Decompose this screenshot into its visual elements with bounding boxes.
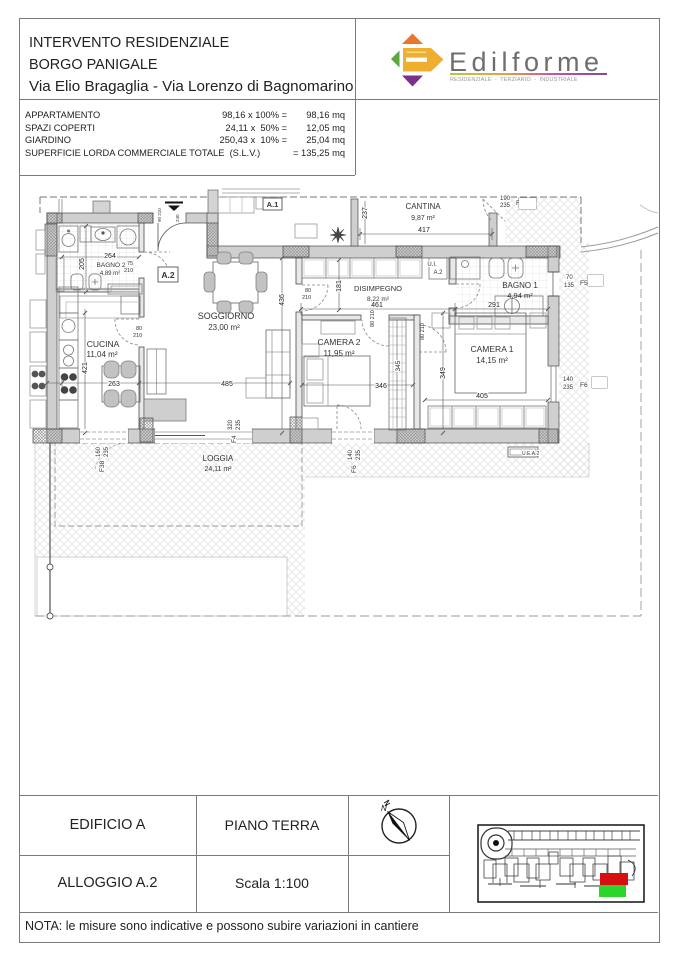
- F6 camera2 door sill: [332, 432, 374, 439]
- loggia dashed boundary: [55, 443, 302, 526]
- dim 291 bagno1: [455, 308, 548, 310]
- divider wall A1/corridor: [207, 246, 560, 258]
- cucina tall unit: [121, 296, 140, 314]
- window labels: [96, 196, 607, 473]
- cucina table: [102, 366, 140, 402]
- svg-text:BAGNO 2: BAGNO 2: [97, 262, 126, 269]
- A2 box: [158, 267, 178, 282]
- pier hatched: sw corner: [33, 429, 62, 443]
- dim 205 vertical: [85, 226, 87, 288]
- F38 kitchen door sill: [80, 432, 128, 439]
- camera2 shelf: [302, 344, 319, 357]
- dim 181 vertical: [338, 260, 340, 309]
- svg-text:A.2: A.2: [161, 270, 175, 280]
- garden hatch loggia field: [35, 443, 305, 557]
- bagno1 floor tiles: [456, 258, 548, 316]
- cantina right wall: [489, 213, 497, 246]
- bagno2 sink top: [80, 226, 91, 242]
- bagno1 west wall: [449, 258, 456, 284]
- svg-text:205: 205: [79, 258, 86, 270]
- disimpegno south wall left: [302, 315, 361, 320]
- measures table: [25, 109, 345, 159]
- south wall segment between doors: [128, 429, 155, 443]
- svg-text:140: 140: [348, 449, 354, 460]
- minimap top strip: [508, 831, 640, 840]
- wall top right of entrance: [186, 213, 218, 223]
- dining table: [213, 262, 258, 303]
- svg-text:U.E.A.2: U.E.A.2: [522, 451, 539, 457]
- svg-text:SOGGIORNO: SOGGIORNO: [198, 311, 255, 321]
- svg-text:CANTINA: CANTINA: [405, 202, 441, 211]
- title text: [29, 33, 353, 99]
- cucina/soggiorno partition mid: [139, 278, 144, 317]
- svg-text:F38: F38: [99, 460, 106, 472]
- soggiorno/camera2 wall upper: [296, 258, 302, 284]
- svg-text:235: 235: [563, 385, 574, 391]
- A1 plant: [330, 227, 346, 243]
- disimpegno south wall right stub: [389, 315, 419, 320]
- cucina top cabinets: [60, 296, 140, 318]
- garden hatch right column: [559, 243, 589, 477]
- svg-text:80 210: 80 210: [370, 310, 376, 327]
- camera2 desk top: [321, 321, 355, 334]
- svg-text:90 210: 90 210: [157, 208, 162, 222]
- bagno1 south wall: [449, 316, 548, 324]
- right outer wall middle: [548, 296, 559, 366]
- south wall segment soggiorno/camera2: [252, 429, 332, 443]
- svg-text:BAGNO 1: BAGNO 1: [502, 281, 538, 290]
- minimap highlight green: [599, 885, 626, 897]
- sofa: [266, 330, 290, 398]
- svg-text:24,11 m²: 24,11 m²: [204, 466, 232, 473]
- svg-text:11,95 m²: 11,95 m²: [324, 349, 355, 358]
- svg-text:140: 140: [563, 377, 574, 383]
- pier hatched: bagno2 top: [138, 213, 153, 223]
- svg-text:160: 160: [96, 446, 102, 457]
- right outer wall bagno1: [548, 246, 559, 272]
- svg-text:349: 349: [440, 367, 447, 379]
- garden hatch bottom right belt: [305, 443, 589, 477]
- svg-text:345: 345: [395, 360, 402, 371]
- svg-text:235: 235: [500, 203, 511, 209]
- svg-text:210: 210: [124, 268, 133, 274]
- entrance jamb column: [207, 213, 218, 258]
- camera1 door arc: [419, 325, 446, 352]
- svg-text:A.2: A.2: [433, 270, 443, 276]
- dim 346 camera2: [302, 384, 413, 386]
- white sill backgrounds: [80, 429, 128, 443]
- pergola post line: [49, 441, 51, 616]
- svg-text:210: 210: [302, 295, 311, 301]
- camera2/camera1 wall: [414, 315, 420, 429]
- soggiorno tall cabinet: [147, 349, 166, 394]
- entrance canopy marker: [165, 202, 183, 204]
- south wall segment camera1: [374, 429, 548, 443]
- svg-text:346: 346: [375, 383, 387, 390]
- svg-text:70: 70: [566, 275, 573, 281]
- property dashed boundary bottom: [35, 615, 641, 617]
- svg-text:190: 190: [500, 196, 511, 202]
- svg-text:264: 264: [104, 253, 116, 260]
- UI A2 closet: [429, 258, 447, 279]
- svg-text:210: 210: [133, 333, 142, 339]
- svg-text:421: 421: [82, 362, 89, 374]
- camera2 french door dashed arc: [337, 405, 361, 429]
- camera2 door arc: [362, 320, 389, 346]
- svg-text:80 210: 80 210: [420, 323, 426, 340]
- title block grid lines: [19, 795, 658, 796]
- pier hatched: divider 1: [283, 246, 309, 257]
- svg-text:461: 461: [371, 302, 383, 309]
- svg-text:F4: F4: [231, 435, 238, 443]
- cucina/soggiorno partition upper: [139, 223, 144, 252]
- soggiorno-disimpegno door arc: [302, 285, 328, 311]
- bagno2 washer: [59, 226, 78, 252]
- cucina door arc: [115, 319, 139, 345]
- bagno1 door arc: [456, 284, 480, 308]
- svg-text:80: 80: [305, 288, 311, 294]
- neighbor A3 fixtures: [36, 230, 45, 250]
- pier hatched: bagno1 top: [526, 246, 557, 257]
- svg-text:235: 235: [104, 446, 110, 457]
- minimap mid strip: [505, 849, 636, 856]
- neighbor wall stubs above top wall: [59, 199, 62, 213]
- camera1 bed: [455, 313, 526, 393]
- camera1 nightstand left: [432, 313, 450, 328]
- kitchen SE platform: [144, 399, 186, 421]
- bagno2 south partition: [57, 289, 139, 292]
- property dashed boundary far right: [640, 250, 642, 616]
- compass needle: [388, 812, 410, 841]
- svg-text:11,04 m²: 11,04 m²: [87, 350, 118, 359]
- cucina chairs: [104, 361, 119, 378]
- bagno2 bidet: [89, 274, 101, 290]
- svg-text:F6: F6: [351, 465, 358, 473]
- cucina/soggiorno partition lower: [139, 347, 144, 429]
- logo diamond: green left triangle: [391, 51, 400, 68]
- title block texts: [19, 795, 196, 855]
- F4 sliding door sill: [155, 432, 252, 439]
- svg-text:235: 235: [356, 449, 362, 460]
- dim 349 vertical: [442, 313, 444, 429]
- camera2 wardrobe column: [389, 318, 406, 430]
- svg-text:181: 181: [336, 280, 343, 292]
- right outer wall lower: [548, 402, 559, 443]
- svg-text:320: 320: [228, 419, 234, 430]
- cucina counter unit: [59, 313, 78, 340]
- svg-text:263: 263: [108, 381, 120, 388]
- svg-text:14,15 m²: 14,15 m²: [476, 356, 508, 365]
- minimap road loop: [481, 828, 512, 859]
- dim 417 cantina: [360, 228, 492, 240]
- pier hatched: camera1 east: [539, 429, 558, 443]
- logo arrow E: [403, 48, 444, 72]
- svg-text:LOGGIA: LOGGIA: [203, 454, 234, 463]
- camera2 bench: [302, 418, 318, 429]
- svg-text:135: 135: [564, 283, 575, 289]
- A1 sofa 1: [218, 197, 254, 213]
- svg-text:DISIMPEGNO: DISIMPEGNO: [354, 284, 402, 293]
- cucina sideboard: [108, 284, 142, 294]
- dim 461 disimpegno: [301, 303, 455, 315]
- property dashed boundary top: [40, 197, 581, 213]
- minimap frame: [478, 825, 644, 902]
- pier hatched: entrance jamb: [207, 223, 218, 256]
- svg-text:23,00 m²: 23,00 m²: [208, 323, 240, 332]
- header separator below title/logo row: [19, 99, 658, 100]
- svg-text:CUCINA: CUCINA: [87, 339, 120, 349]
- header separator below measures box: [19, 175, 355, 176]
- property dashed boundary right upper: [580, 197, 582, 243]
- disimpegno wardrobe row: [302, 258, 422, 278]
- party wall left: [47, 213, 57, 443]
- camera1 wardrobe: [428, 406, 546, 428]
- bagno2 sink2: [117, 226, 139, 248]
- garden hatch top-right block: [505, 197, 581, 243]
- window F5 lines: [548, 272, 559, 296]
- cucina stove: [59, 368, 78, 400]
- cucina counter fridge: [59, 287, 78, 313]
- soggiorno/camera2 wall lower: [296, 312, 302, 429]
- bagno2 side cabinet: [56, 258, 64, 291]
- dim 345 vertical wardrobe: [396, 320, 398, 428]
- bagno1 wc: [489, 258, 504, 278]
- A1 couch 2: [295, 224, 317, 238]
- svg-text:CAMERA 1: CAMERA 1: [471, 344, 514, 354]
- dim 264 bagno2: [62, 256, 139, 258]
- small door labels: [124, 208, 426, 340]
- camera2 bed: [304, 356, 370, 406]
- svg-text:405: 405: [476, 393, 488, 400]
- road curb curves top right: [581, 227, 658, 247]
- wall top bagno2: [47, 213, 153, 223]
- kitchen door arc to loggia: [95, 443, 128, 469]
- bagno2 wc: [71, 274, 83, 290]
- south wall segment kitchen left: [47, 429, 80, 443]
- boiler closet: [450, 257, 480, 279]
- svg-text:U.I.: U.I.: [427, 262, 437, 268]
- cucina sink unit: [59, 340, 78, 368]
- dim 436 vertical: [281, 258, 283, 429]
- UEA2 marker: [508, 447, 538, 457]
- svg-text:237: 237: [362, 207, 369, 219]
- dim 421 vertical cucina: [84, 309, 86, 429]
- svg-text:436: 436: [279, 294, 286, 306]
- bagno2 floor tiles: [57, 223, 139, 291]
- svg-text:CAMERA 2: CAMERA 2: [318, 337, 361, 347]
- svg-text:F6: F6: [580, 382, 588, 389]
- pier hatched: party wall: [45, 224, 57, 256]
- dining chairs: [217, 252, 231, 264]
- svg-text:4,94 m²: 4,94 m²: [507, 291, 533, 300]
- logo diamond: orange top triangle: [402, 34, 423, 45]
- bagno1 shower: [495, 296, 543, 316]
- svg-text:A.1: A.1: [267, 200, 279, 209]
- pier hatched: camera2 west: [290, 417, 302, 443]
- door F6 camera1 east glazing: [551, 366, 556, 402]
- cucina counter base: [59, 400, 78, 428]
- svg-text:485: 485: [221, 381, 233, 388]
- dim 237 vertical: [364, 201, 366, 244]
- minimap right curve: [628, 860, 635, 876]
- dim 405 camera1: [425, 399, 548, 401]
- logo diamond: purple bottom triangle: [402, 76, 423, 87]
- dim 485+263 line: [47, 377, 290, 389]
- minimap unit blocks: [484, 852, 634, 888]
- svg-text:240: 240: [175, 214, 180, 222]
- svg-text:80: 80: [136, 326, 142, 332]
- minimap highlight red: [600, 873, 628, 885]
- lawn white rect: [37, 557, 287, 616]
- pier hatched: kitchen SE: [140, 418, 153, 442]
- dim labels: [79, 207, 500, 400]
- Edilforme wordmark: [449, 47, 604, 78]
- A1 box: [263, 198, 282, 210]
- svg-text:75: 75: [127, 261, 133, 267]
- pier hatched: divider 2: [396, 246, 422, 257]
- svg-text:235: 235: [236, 419, 242, 430]
- cantina left wall: [351, 199, 358, 246]
- entrance door leaf+arc: [158, 223, 186, 251]
- pier hatched: top-left corner: [47, 213, 62, 223]
- bagno1 bidet: [508, 258, 523, 278]
- bagno2 door arc: [144, 252, 170, 278]
- hatch boundary light lines: [35, 443, 589, 616]
- svg-text:417: 417: [418, 227, 430, 234]
- compass circle: [382, 809, 416, 843]
- bagno1 west wall lower stub: [449, 308, 456, 320]
- svg-text:F5: F5: [580, 280, 588, 287]
- svg-text:4,89 m²: 4,89 m²: [100, 271, 120, 277]
- garden hatch strip right of lawn: [287, 557, 305, 616]
- vertical divider title/logo: [355, 18, 356, 175]
- cantina F38 dashed door: [483, 199, 505, 221]
- pier hatched: camera2 east: [397, 429, 425, 443]
- svg-text:291: 291: [488, 302, 500, 309]
- svg-text:9,87 m²: 9,87 m²: [411, 215, 435, 222]
